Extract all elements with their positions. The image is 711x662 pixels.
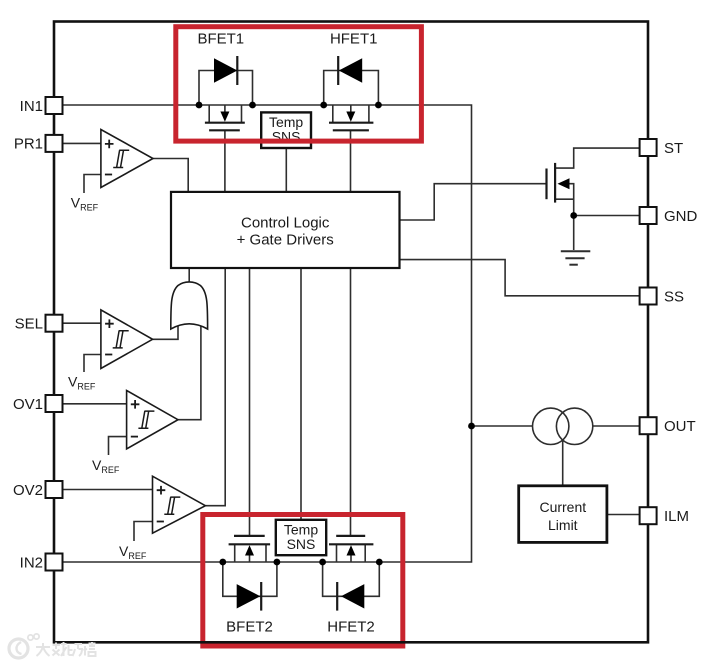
svg-text:BFET2: BFET2 [226, 619, 273, 636]
svg-text:IN1: IN1 [20, 98, 43, 115]
svg-text:IN2: IN2 [20, 554, 43, 571]
svg-text:OV1: OV1 [13, 396, 43, 413]
svg-text:ILM: ILM [664, 508, 689, 525]
svg-text:SNS: SNS [287, 536, 316, 552]
svg-text:SS: SS [664, 288, 684, 305]
svg-text:Current: Current [539, 499, 586, 515]
svg-text:Temp: Temp [269, 114, 303, 130]
svg-text:SEL: SEL [15, 316, 43, 333]
svg-text:+ Gate Drivers: + Gate Drivers [237, 232, 334, 249]
svg-text:ST: ST [664, 140, 683, 157]
svg-text:BFET1: BFET1 [197, 30, 244, 47]
svg-text:HFET1: HFET1 [330, 30, 378, 47]
svg-text:GND: GND [664, 208, 698, 225]
svg-text:Limit: Limit [548, 517, 578, 533]
svg-text:OUT: OUT [664, 418, 696, 435]
svg-text:Temp: Temp [284, 521, 318, 537]
svg-text:Control Logic: Control Logic [241, 215, 330, 232]
svg-text:PR1: PR1 [14, 136, 43, 153]
svg-text:OV2: OV2 [13, 482, 43, 499]
svg-text:HFET2: HFET2 [327, 619, 375, 636]
